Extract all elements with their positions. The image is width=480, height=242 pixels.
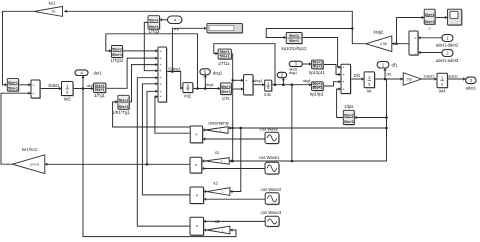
- svg-text:deg1: deg1: [213, 70, 223, 75]
- svg-text:uncertainty: uncertainty: [208, 120, 229, 125]
- svg-text:x2: x2: [213, 180, 218, 185]
- svg-text:kp1/tp11: kp1/tp11: [309, 70, 325, 75]
- svg-text:x3: x3: [215, 219, 220, 224]
- svg-text:det1: det1: [87, 84, 94, 88]
- svg-text:int: int: [367, 89, 372, 94]
- svg-text:1/Tg3: 1/Tg3: [148, 29, 159, 34]
- svg-text:adet1: adet1: [448, 74, 458, 78]
- svg-text:adet1-ddet2: adet1-ddet2: [436, 42, 459, 47]
- svg-text:50s+1: 50s+1: [119, 98, 129, 102]
- svg-text:50s+1: 50s+1: [112, 48, 122, 52]
- svg-text:10: 10: [51, 10, 55, 14]
- svg-text:Ddeg1: Ddeg1: [168, 67, 181, 72]
- svg-text:1/Ts: 1/Ts: [222, 96, 230, 101]
- svg-text:kp1/tp1: kp1/tp1: [310, 92, 324, 97]
- svg-text:50s+1: 50s+1: [425, 20, 435, 24]
- svg-text:50s+1: 50s+1: [95, 84, 105, 88]
- svg-text:Ddet1: Ddet1: [424, 74, 434, 78]
- svg-text:×: ×: [195, 132, 198, 137]
- svg-text:50s+1: 50s+1: [149, 19, 159, 23]
- svg-text:int3: int3: [64, 97, 71, 102]
- svg-text:dsg1: dsg1: [289, 71, 297, 75]
- svg-text:50s+1: 50s+1: [8, 87, 18, 91]
- svg-text:50s+1: 50s+1: [425, 13, 435, 17]
- svg-text:ke1: ke1: [49, 1, 56, 6]
- svg-text:50s+1: 50s+1: [344, 120, 354, 124]
- svg-text:1/Tg1: 1/Tg1: [94, 93, 105, 98]
- svg-text:cos Wave3: cos Wave3: [261, 210, 282, 215]
- svg-text:50s+1: 50s+1: [289, 39, 299, 43]
- svg-text:50s+1: 50s+1: [312, 65, 322, 69]
- svg-text:×: ×: [194, 163, 197, 168]
- svg-text:Df1: Df1: [354, 73, 361, 78]
- svg-text:deg1: deg1: [205, 83, 213, 87]
- svg-text:int2: int2: [184, 94, 191, 99]
- svg-text:1/Tg12: 1/Tg12: [110, 58, 124, 63]
- svg-text:50s+1: 50s+1: [220, 55, 230, 59]
- svg-text:adet1: adet1: [466, 86, 477, 91]
- svg-text:ke1*ko1: ke1*ko1: [22, 147, 38, 152]
- svg-text:1/tps: 1/tps: [344, 104, 353, 109]
- svg-text:1/R1*Tg1: 1/R1*Tg1: [112, 110, 130, 115]
- svg-text:Ddet1: Ddet1: [48, 83, 60, 88]
- svg-text:ksig2: ksig2: [374, 29, 384, 34]
- svg-text:int1: int1: [264, 92, 271, 97]
- svg-text:50s+1: 50s+1: [312, 86, 322, 90]
- svg-text:ddeg1: ddeg1: [252, 79, 263, 83]
- svg-text:cos Wave: cos Wave: [260, 127, 279, 132]
- svg-text:50s+1: 50s+1: [95, 88, 105, 92]
- svg-text:cos Wave1: cos Wave1: [259, 155, 280, 160]
- svg-text:1/Tf11: 1/Tf11: [218, 61, 230, 66]
- svg-text:50s+1: 50s+1: [289, 34, 299, 38]
- svg-text:adet1-adet3: adet1-adet3: [436, 58, 459, 63]
- svg-text:cos Wave2: cos Wave2: [261, 187, 282, 192]
- svg-text:df1: df1: [386, 72, 391, 76]
- svg-text:50s+1: 50s+1: [119, 105, 129, 109]
- svg-text:2*pi: 2*pi: [406, 77, 412, 81]
- svg-text:kp1/2*pi*tp12: kp1/2*pi*tp12: [282, 46, 308, 51]
- svg-text:10*0.41: 10*0.41: [29, 163, 40, 167]
- svg-text:int4: int4: [439, 89, 446, 94]
- svg-text:df1: df1: [392, 63, 398, 68]
- svg-text:×: ×: [195, 224, 198, 229]
- svg-text:50s+1: 50s+1: [344, 114, 354, 118]
- svg-text:50s+1: 50s+1: [149, 25, 159, 29]
- svg-text:2: 2: [428, 26, 431, 31]
- svg-text:×: ×: [195, 193, 198, 198]
- svg-text:50s+1: 50s+1: [220, 50, 230, 54]
- svg-text:x1: x1: [215, 150, 220, 155]
- svg-text:50s+1: 50s+1: [112, 53, 122, 57]
- svg-text:dsg1: dsg1: [303, 79, 311, 83]
- svg-text:0.56: 0.56: [380, 42, 387, 46]
- svg-text:det1: det1: [94, 70, 103, 75]
- svg-text:50s+1: 50s+1: [221, 85, 231, 89]
- svg-text:50s+1: 50s+1: [221, 90, 231, 94]
- svg-text:50s+1: 50s+1: [8, 81, 18, 85]
